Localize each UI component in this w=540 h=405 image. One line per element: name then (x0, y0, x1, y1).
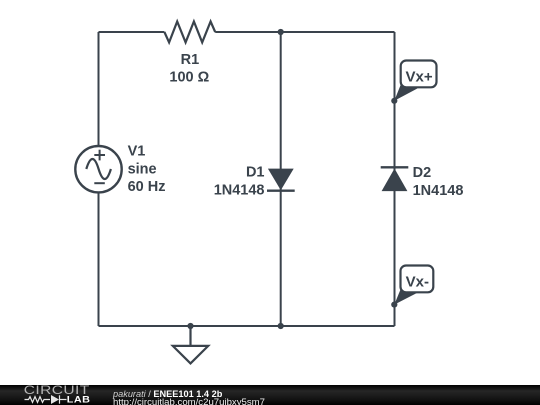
node junction dot ground (187, 323, 193, 329)
footer attribution text (113, 389, 222, 399)
wire bottom (99, 325, 395, 327)
svg-text:Vx-: Vx- (406, 273, 429, 290)
voltage source V1 (75, 146, 121, 192)
node junction dot bottom middle (278, 323, 284, 329)
svg-text:sine: sine (128, 161, 157, 177)
wire top right segment (215, 31, 394, 33)
svg-text:1N4148: 1N4148 (413, 183, 464, 199)
svg-text:1N4148: 1N4148 (214, 183, 265, 199)
wire middle branch (280, 32, 282, 326)
footer bar (0, 385, 540, 405)
flag Vx+ (391, 61, 436, 104)
wire top left segment (99, 31, 165, 33)
diode D2 (381, 167, 409, 191)
svg-text:R1: R1 (181, 52, 200, 68)
ground (173, 326, 208, 363)
resistor R1 (164, 22, 215, 43)
circuitlab logo (0, 384, 110, 405)
svg-text:D1: D1 (246, 164, 265, 180)
svg-text:Vx+: Vx+ (406, 69, 433, 86)
footer url text (113, 397, 265, 405)
svg-text:60 Hz: 60 Hz (128, 179, 166, 195)
svg-text:100 Ω: 100 Ω (169, 70, 209, 86)
wire right branch (394, 32, 396, 326)
svg-text:V1: V1 (128, 144, 146, 160)
diode D1 (267, 169, 295, 191)
svg-text:LAB: LAB (67, 395, 91, 405)
svg-text:D2: D2 (413, 165, 432, 181)
node junction dot top (278, 29, 284, 35)
flag Vx- (391, 266, 433, 308)
wire left lower segment (98, 192, 100, 326)
wire left upper segment (98, 32, 100, 146)
